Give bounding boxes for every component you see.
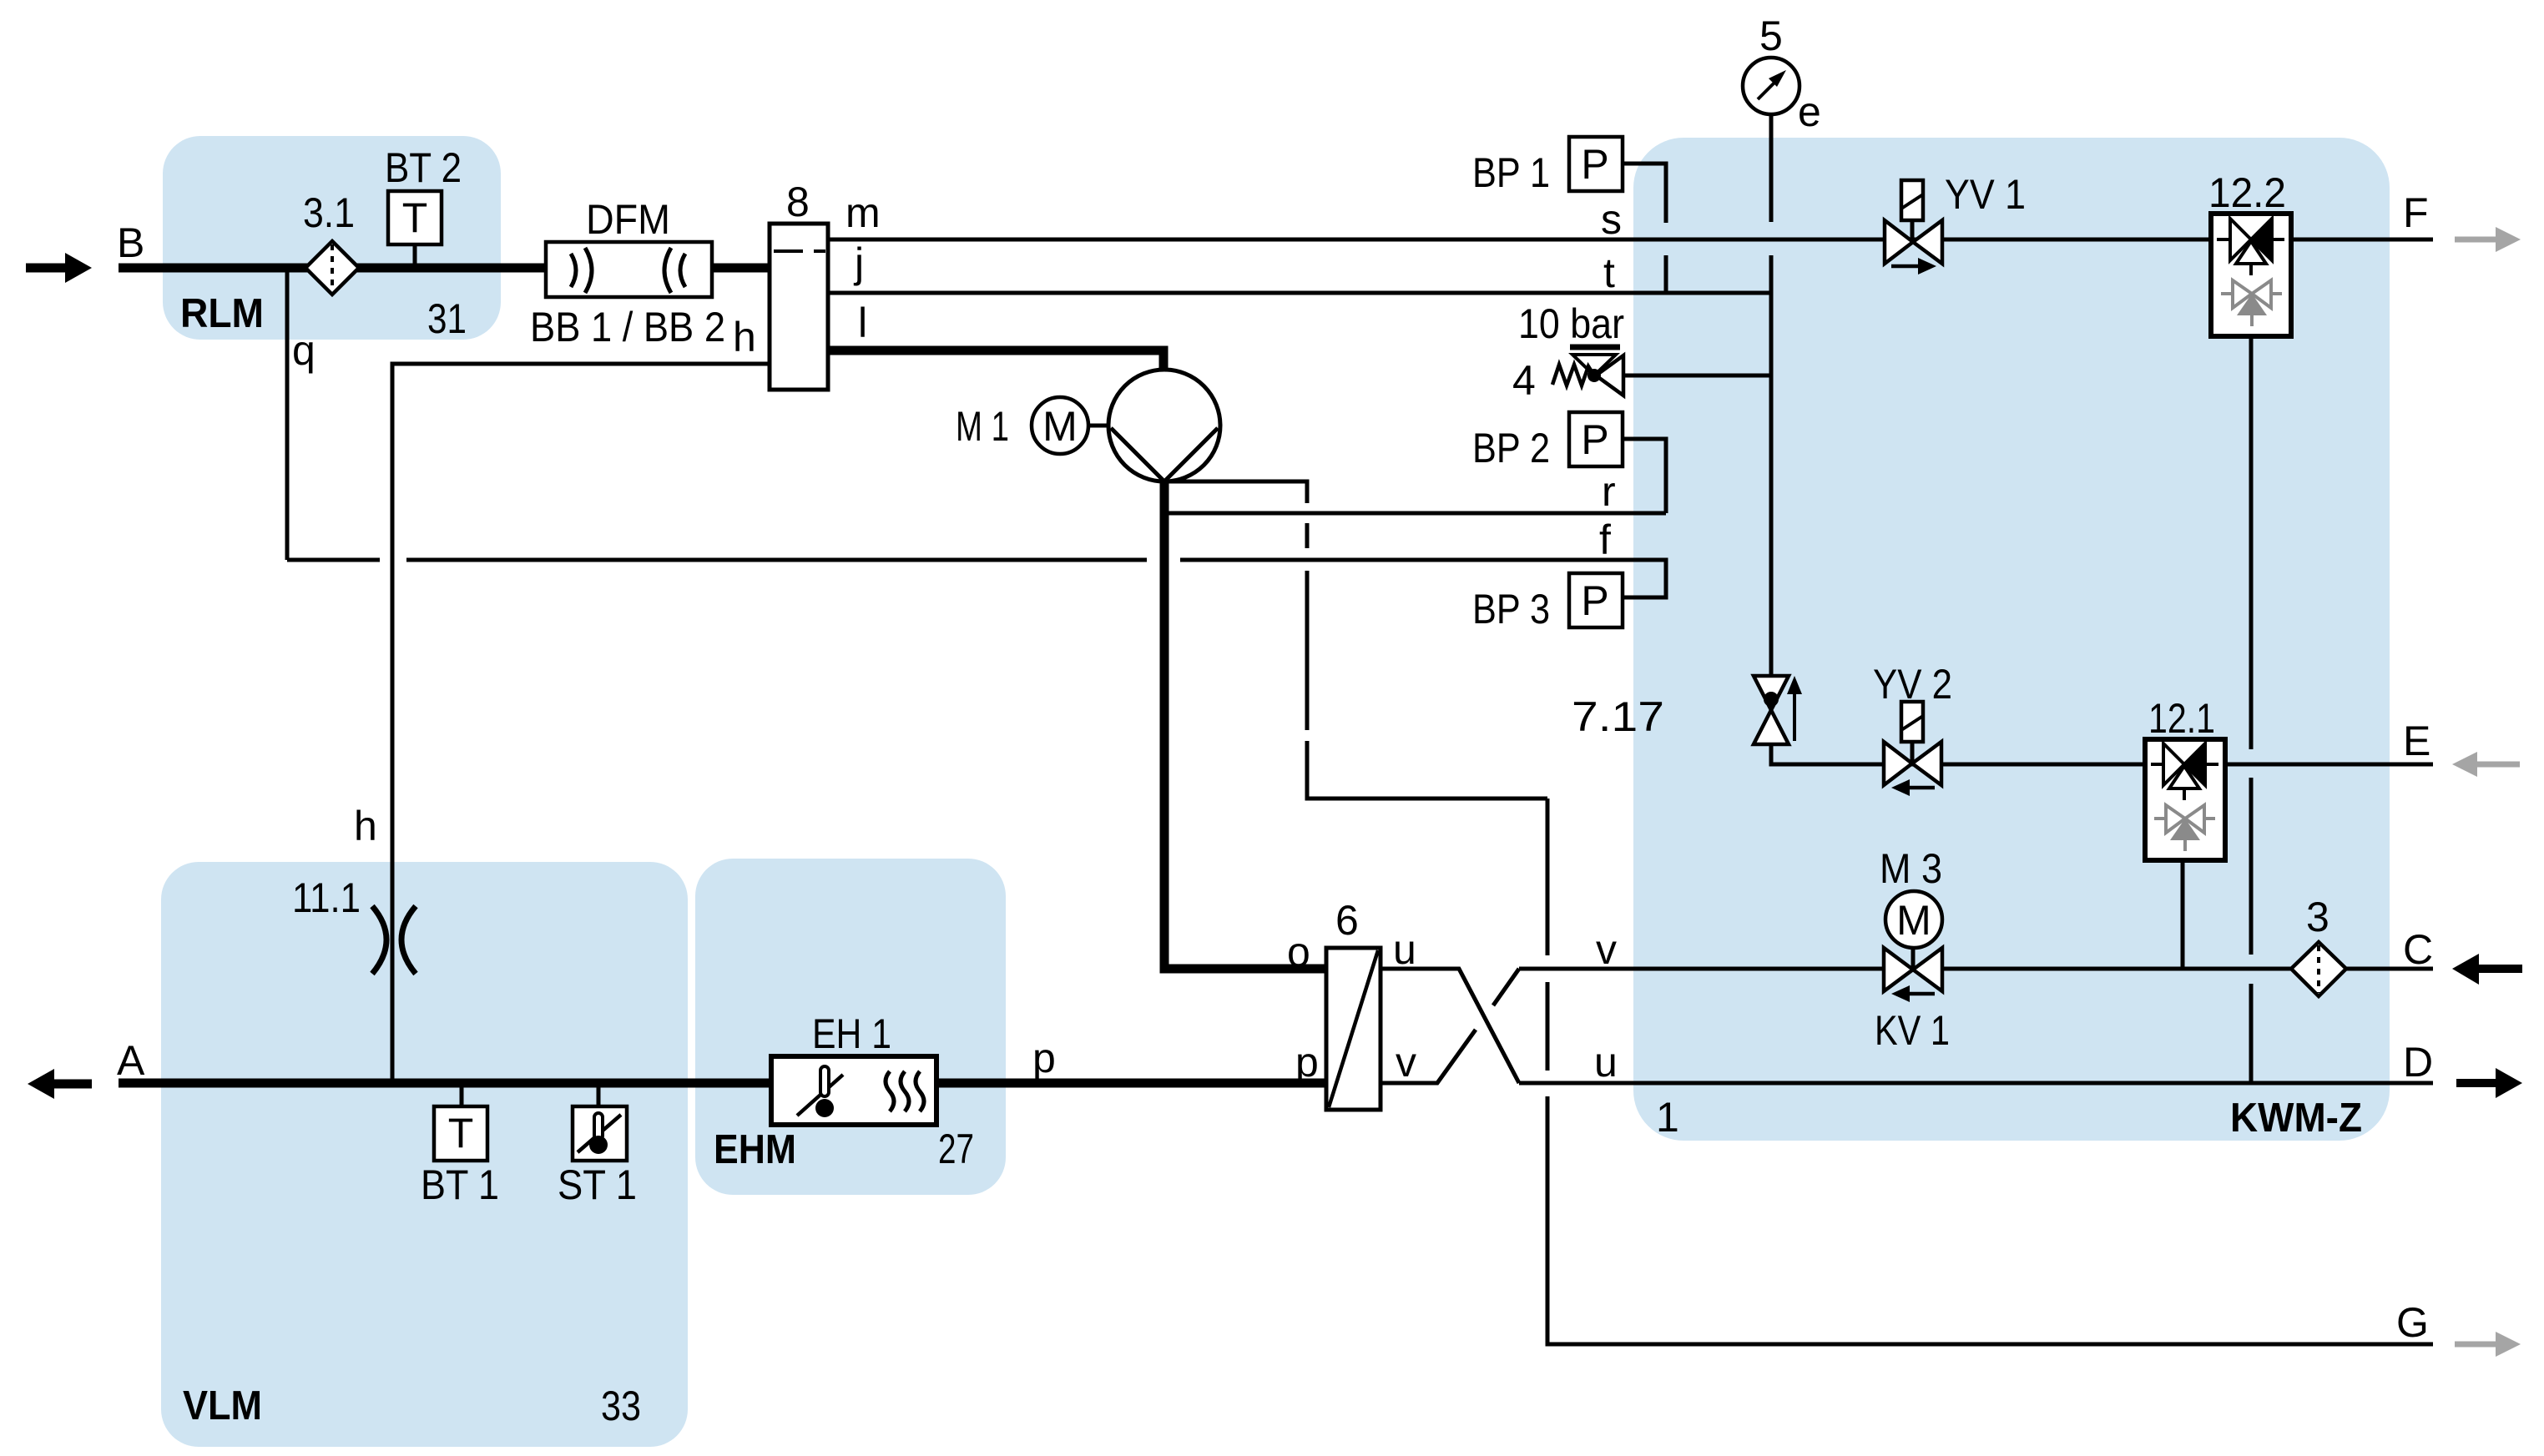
svg-text:VLM: VLM: [183, 1383, 262, 1428]
wire q/f line segment 3 with elbow to BP 3: [1180, 560, 1666, 597]
svg-text:8: 8: [786, 179, 810, 225]
heat exchanger 6: [1326, 948, 1381, 1110]
wire bypass vertical segment 4: [1546, 799, 1550, 955]
svg-text:f: f: [1599, 516, 1611, 563]
svg-text:h: h: [354, 803, 377, 849]
svg-text:u: u: [1393, 926, 1416, 973]
svg-text:ST 1: ST 1: [558, 1161, 637, 1208]
svg-text:12.1: 12.1: [2148, 695, 2215, 742]
svg-text:G: G: [2396, 1299, 2429, 1346]
filter 3: [2291, 942, 2346, 996]
svg-text:l: l: [858, 300, 867, 346]
svg-text:7.17: 7.17: [1572, 693, 1664, 740]
svg-text:M 1: M 1: [956, 403, 1009, 450]
svg-text:C: C: [2403, 926, 2433, 973]
svg-text:6: 6: [1335, 897, 1359, 944]
wire l line to pump inlet: [828, 350, 1163, 374]
svg-text:5: 5: [1759, 13, 1783, 59]
svg-text:33: 33: [601, 1383, 641, 1429]
svg-text:v: v: [1396, 1039, 1416, 1086]
svg-text:E: E: [2403, 718, 2430, 764]
pressure gauge 5: [1743, 58, 1799, 114]
wire q/f line segment 2: [406, 558, 1147, 562]
svg-text:T: T: [402, 194, 428, 241]
svg-text:DFM: DFM: [586, 196, 670, 243]
heater EH 1: [771, 1056, 936, 1125]
wire drain to G: [1547, 1096, 2433, 1344]
temperature sensor BT 1: [434, 1083, 487, 1161]
module box VLM: [161, 862, 688, 1447]
wire 7.17 to E line: [1771, 743, 2433, 764]
wire pump drain connector: [1167, 481, 1307, 503]
wire bypass dashed segment 1: [1305, 523, 1310, 548]
wire gauge 5 stem: [1769, 114, 1774, 222]
motor valve M 3 / KV 1: [1884, 891, 1942, 1002]
svg-text:YV 1: YV 1: [1945, 171, 2026, 218]
svg-text:EH 1: EH 1: [812, 1010, 891, 1057]
svg-text:P: P: [1581, 416, 1608, 463]
svg-text:BP 1: BP 1: [1472, 149, 1550, 196]
solenoid valve YV 1: [1885, 180, 1942, 275]
wire heat exchanger v crossover (ascending, broken at crossing): [1381, 1030, 1476, 1083]
svg-text:KWM-Z: KWM-Z: [2230, 1096, 2362, 1141]
svg-text:31: 31: [427, 295, 467, 342]
wire q/f line segment 1: [287, 558, 380, 562]
arrow E inlet (gray): [2452, 752, 2520, 777]
air separation chamber 8: [770, 224, 828, 390]
svg-text:YV 2: YV 2: [1873, 661, 1952, 708]
svg-text:e: e: [1798, 88, 1821, 135]
pressure sensor BP 2: [1569, 412, 1623, 466]
svg-text:EHM: EHM: [714, 1127, 796, 1172]
svg-text:BB 1 / BB 2: BB 1 / BB 2: [530, 304, 725, 350]
svg-text:27: 27: [938, 1126, 974, 1172]
svg-text:M: M: [1042, 403, 1078, 450]
valve 7.17: [1754, 676, 1802, 744]
module box EHM: [695, 859, 1006, 1195]
svg-text:12.2: 12.2: [2208, 169, 2286, 216]
pump M 1: [1108, 370, 1220, 481]
svg-text:P: P: [1581, 577, 1608, 624]
pressure sensor BP 3: [1569, 573, 1623, 627]
svg-text:v: v: [1596, 926, 1617, 973]
svg-text:u: u: [1594, 1039, 1618, 1086]
svg-text:D: D: [2403, 1039, 2433, 1086]
arrow C inlet: [2452, 954, 2522, 985]
temperature limiter ST 1: [573, 1083, 627, 1161]
svg-text:F: F: [2403, 189, 2429, 236]
module box KWM-Z: [1633, 138, 2390, 1141]
wire heat exchanger u crossover (descending, continuous): [1381, 969, 1519, 1083]
relief valve 4 (10 bar): [1552, 347, 1623, 395]
wire bypass dashed segment 2: [1305, 571, 1310, 730]
svg-text:B: B: [117, 219, 144, 266]
svg-text:M 3: M 3: [1880, 845, 1942, 892]
svg-text:s: s: [1601, 196, 1622, 243]
svg-text:P: P: [1581, 141, 1608, 188]
wire B inlet line: [119, 264, 770, 273]
check valve block 12.1: [2145, 739, 2225, 860]
wire j/t line: [828, 291, 1771, 295]
wire gauge vertical to valve 7.17: [1769, 255, 1774, 693]
temperature sensor BT 2: [388, 191, 442, 268]
svg-text:BT 2: BT 2: [385, 144, 462, 191]
wire 12.2 branch lower to D line: [2249, 984, 2254, 1083]
wire 12.2 branch middle: [2249, 778, 2254, 955]
svg-text:RLM: RLM: [180, 291, 264, 336]
svg-text:p: p: [1295, 1039, 1319, 1086]
wire m/s/F line: [828, 238, 2433, 242]
svg-text:j: j: [853, 239, 864, 286]
wire 12.2 branch upper: [2249, 336, 2254, 749]
svg-text:1: 1: [1656, 1094, 1679, 1141]
svg-text:3: 3: [2306, 894, 2329, 940]
svg-text:T: T: [448, 1110, 474, 1156]
filter 3.1: [305, 241, 359, 295]
wire u/D line: [1519, 1081, 2433, 1086]
svg-text:BT 1: BT 1: [421, 1161, 499, 1208]
svg-text:r: r: [1602, 468, 1616, 515]
svg-text:M: M: [1896, 897, 1931, 944]
svg-text:p: p: [1032, 1035, 1056, 1081]
wire bypass dashed segment 3 with elbow: [1307, 741, 1547, 799]
wire BP 1 connector lower: [1664, 255, 1668, 293]
module box RLM: [163, 136, 501, 340]
svg-text:4: 4: [1512, 357, 1536, 404]
svg-text:KV 1: KV 1: [1875, 1007, 1950, 1054]
wire bypass vertical segment 5: [1546, 982, 1550, 1071]
arrow A outlet: [28, 1069, 92, 1099]
pressure sensor BP 1: [1569, 137, 1623, 191]
wire r line: [1166, 511, 1666, 516]
svg-text:t: t: [1603, 249, 1615, 296]
svg-text:q: q: [292, 327, 315, 374]
wire 12.1 branch to C line: [2181, 860, 2185, 969]
wire BP 1 connector: [1623, 164, 1666, 223]
arrow B inlet: [26, 253, 92, 283]
svg-text:11.1: 11.1: [292, 874, 361, 921]
svg-text:BP 3: BP 3: [1472, 586, 1550, 632]
wire v/C line: [1519, 967, 2433, 971]
wire pump outlet to heat exchanger port o: [1164, 480, 1326, 969]
svg-text:10 bar: 10 bar: [1518, 300, 1624, 347]
svg-text:BP 2: BP 2: [1472, 425, 1550, 471]
disconnect coupling 11.1: [372, 906, 416, 974]
wire A outlet line: [119, 1079, 1326, 1088]
wire h line from port h of 8 down to A line: [392, 364, 770, 1083]
solenoid valve YV 2: [1884, 702, 1941, 796]
wire v crossover upper part: [1493, 969, 1519, 1005]
svg-text:3.1: 3.1: [303, 189, 355, 236]
svg-text:o: o: [1287, 929, 1310, 975]
arrow G outlet (gray): [2455, 1332, 2521, 1357]
wire q vertical: [285, 268, 290, 560]
wire BP 2 connector: [1623, 439, 1666, 513]
svg-text:h: h: [733, 314, 756, 360]
motor M 1: [1032, 397, 1110, 454]
check valve block 12.2: [2211, 214, 2291, 336]
svg-text:A: A: [117, 1037, 145, 1084]
arrow F outlet (gray): [2455, 227, 2521, 252]
wire relief valve 4 connector: [1623, 374, 1771, 378]
svg-text:m: m: [845, 189, 881, 236]
arrow D outlet: [2456, 1068, 2522, 1098]
flow meter DFM / BB 1 BB 2: [546, 242, 712, 297]
